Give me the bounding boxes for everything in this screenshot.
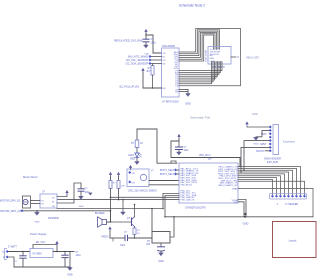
svg-text:DRV8838: DRV8838 — [48, 217, 59, 220]
svg-text:VDD_MCU: VDD_MCU — [199, 155, 211, 157]
svg-text:VD: VD — [163, 53, 166, 55]
svg-text:BUZZER: BUZZER — [95, 212, 105, 215]
svg-text:GND: GND — [185, 102, 191, 106]
svg-text:EXP_BUS: EXP_BUS — [267, 161, 278, 164]
svg-text:BOOT0: BOOT0 — [256, 150, 265, 153]
svg-text:BOOT_SEL0: BOOT_SEL0 — [160, 169, 175, 172]
svg-text:O2: O2 — [41, 203, 45, 205]
svg-text:Power Supply: Power Supply — [30, 232, 47, 236]
svg-text:EN_VCC: EN_VCC — [36, 242, 46, 244]
svg-text:220: 220 — [146, 244, 151, 246]
svg-text:J? HEADER: J? HEADER — [285, 203, 298, 206]
svg-text:SC: SC — [163, 60, 166, 62]
svg-text:PH: PH — [52, 206, 55, 208]
svg-text:R: R — [238, 56, 240, 59]
svg-text:ICM-20948: ICM-20948 — [162, 44, 175, 48]
svg-text:1: 1 — [277, 203, 279, 206]
svg-text:U? MPU-9250: U? MPU-9250 — [162, 100, 179, 104]
svg-text:PB0_ADC8: PB0_ADC8 — [181, 183, 193, 186]
svg-text:Motor Driver: Motor Driver — [23, 175, 38, 179]
svg-text:C?: C? — [124, 232, 128, 234]
svg-text:GND: GND — [252, 112, 258, 116]
svg-text:Q?: Q? — [127, 218, 131, 220]
svg-text:GND: GND — [79, 206, 84, 208]
svg-text:GN: GN — [175, 91, 179, 93]
svg-text:C?: C? — [76, 252, 80, 254]
svg-text:PB9_CAN_TX: PB9_CAN_TX — [181, 199, 196, 202]
svg-text:Schematic Node 2: Schematic Node 2 — [179, 4, 205, 8]
svg-text:C?: C? — [85, 189, 89, 191]
svg-text:VSS: VSS — [233, 202, 238, 204]
svg-text:USB_CONN: USB_CONN — [206, 49, 208, 62]
svg-text:PA10_USART1_RX: PA10_USART1_RX — [218, 184, 238, 187]
svg-text:R?: R? — [147, 241, 151, 243]
svg-text:LED?: LED? — [128, 155, 134, 157]
svg-text:IN VREG: IN VREG — [33, 254, 43, 256]
svg-text:J? BATT: J? BATT — [8, 246, 17, 249]
svg-text:Schematic Title: Schematic Title — [190, 116, 211, 120]
svg-text:GND: GND — [254, 143, 259, 145]
svg-text:Expansion: Expansion — [283, 140, 296, 144]
svg-text:1K: 1K — [137, 233, 140, 235]
svg-text:GND: GND — [158, 260, 164, 263]
svg-text:B+: B+ — [2, 252, 5, 254]
svg-text:IN: IN — [52, 202, 55, 204]
svg-text:R?: R? — [113, 183, 117, 185]
svg-text:100n: 100n — [120, 245, 126, 247]
svg-text:100n: 100n — [184, 150, 190, 152]
svg-text:MOTOR_DRV_O1: MOTOR_DRV_O1 — [0, 200, 21, 203]
svg-text:GN: GN — [132, 183, 136, 185]
svg-text:STM32F103C8T6: STM32F103C8T6 — [185, 206, 206, 210]
svg-text:D6: D6 — [175, 86, 179, 88]
svg-text:RED: RED — [130, 159, 135, 161]
svg-text:1 2 3 4 5 6 7: 1 2 3 4 5 6 7 — [211, 62, 223, 64]
svg-text:I2C_PULLUP_EN: I2C_PULLUP_EN — [119, 85, 139, 88]
svg-text:PIEZO: PIEZO — [101, 236, 108, 239]
svg-text:GND: GND — [243, 222, 249, 226]
svg-text:VV: VV — [52, 197, 55, 199]
svg-text:4K7: 4K7 — [146, 71, 151, 73]
svg-text:Layout: Layout — [289, 239, 297, 243]
svg-text:OSC_32K SWCLK SWDIO: OSC_32K SWCLK SWDIO — [128, 189, 157, 192]
svg-text:100u: 100u — [76, 255, 82, 257]
svg-text:NRST: NRST — [260, 143, 267, 146]
svg-text:GND: GND — [35, 222, 40, 224]
svg-text:R?: R? — [137, 230, 141, 232]
svg-text:B-: B- — [3, 257, 5, 259]
svg-text:OE: OE — [132, 173, 136, 175]
svg-text:GND: GND — [67, 274, 73, 277]
svg-text:Y?: Y? — [151, 170, 155, 173]
svg-text:MIC: MIC — [210, 55, 214, 57]
svg-text:R?: R? — [131, 143, 135, 145]
svg-text:U?: U? — [42, 191, 46, 194]
svg-text:IN: IN — [163, 57, 166, 59]
svg-text:O1: O1 — [41, 200, 45, 202]
svg-text:VBUS_DET: VBUS_DET — [246, 57, 260, 60]
svg-text:C?: C? — [184, 147, 188, 149]
svg-text:USB: USB — [210, 58, 215, 60]
svg-text:EN: EN — [163, 88, 166, 90]
svg-text:REGULATED_3V3_RAIL: REGULATED_3V3_RAIL — [114, 39, 143, 43]
svg-text:SD: SD — [163, 64, 166, 66]
svg-text:I2C_SDA_SENSOR: I2C_SDA_SENSOR — [126, 63, 149, 66]
svg-text:BOOT_SEL1: BOOT_SEL1 — [160, 173, 175, 176]
svg-text:100n: 100n — [151, 41, 157, 44]
svg-text:C?: C? — [14, 261, 18, 263]
svg-text:VBAT: VBAT — [232, 188, 238, 191]
svg-text:MOTOR_DRV_O2: MOTOR_DRV_O2 — [0, 210, 21, 213]
svg-text:10K: 10K — [121, 186, 125, 188]
svg-text:1K: 1K — [140, 143, 143, 145]
